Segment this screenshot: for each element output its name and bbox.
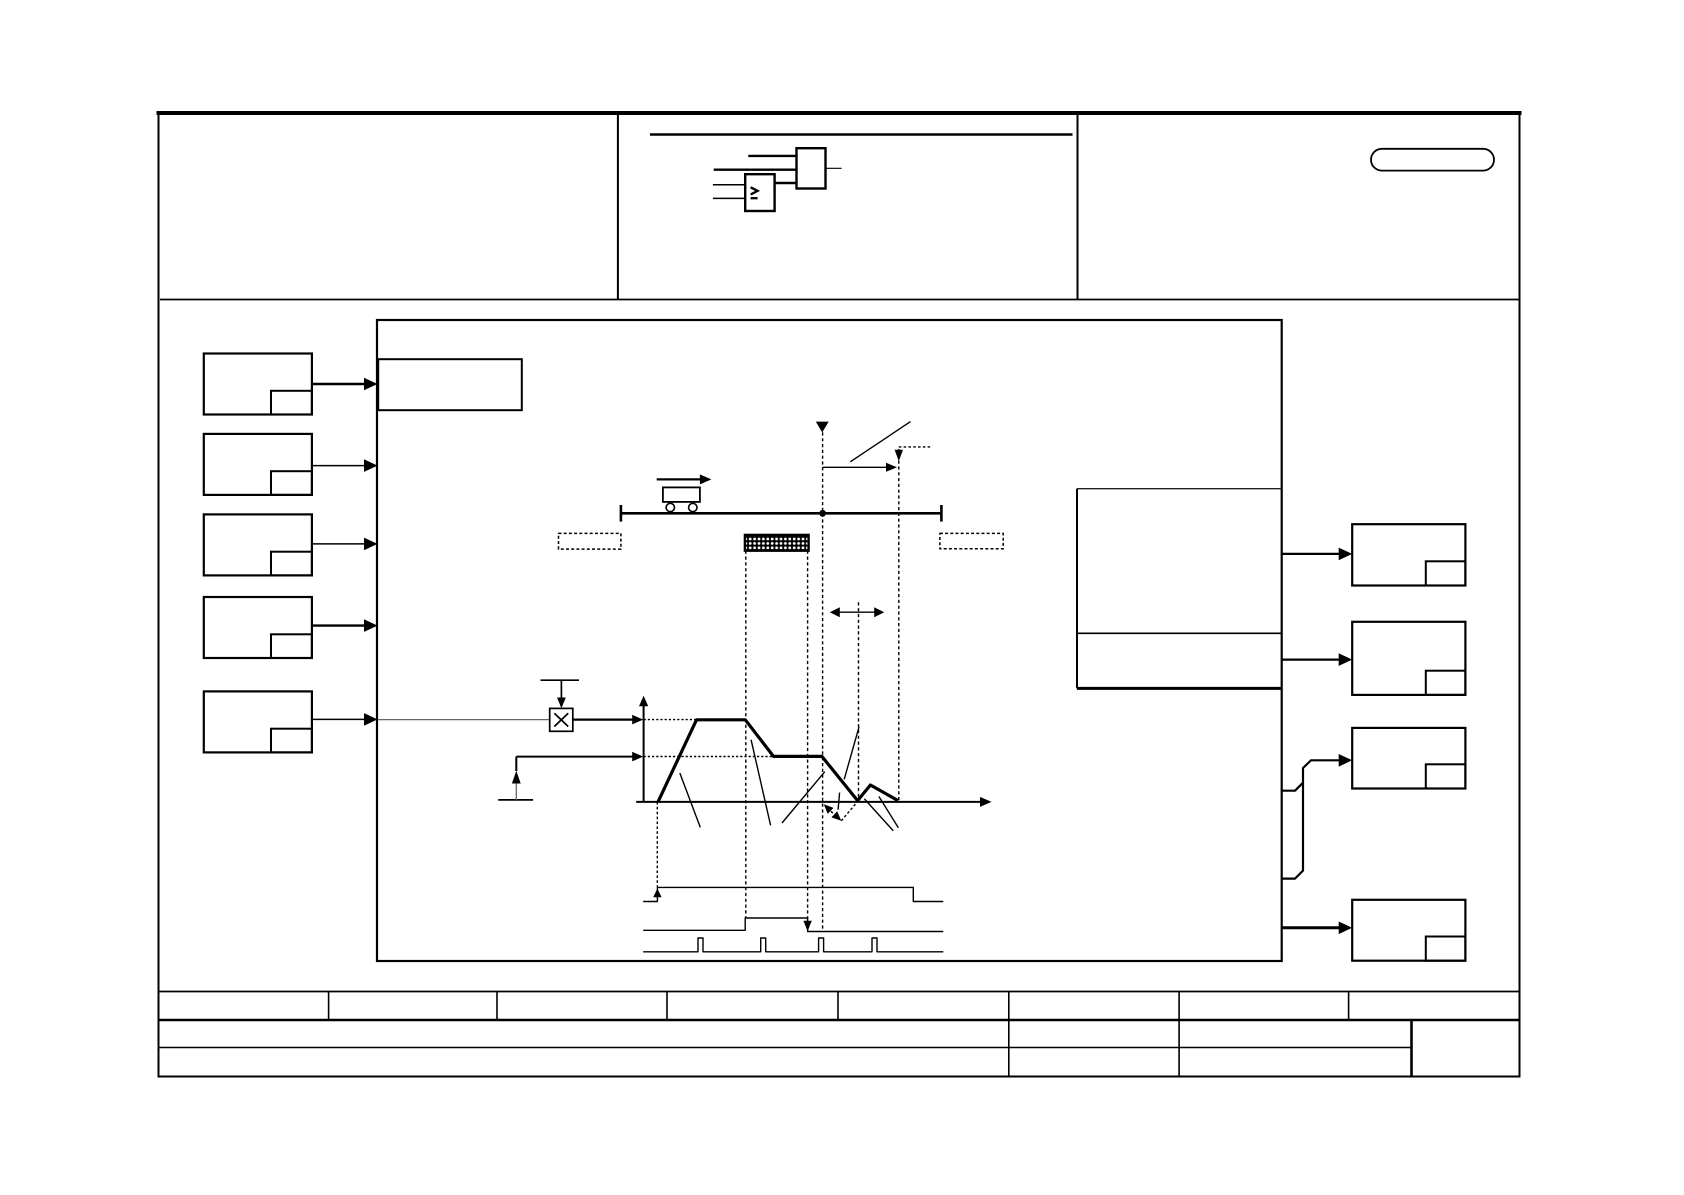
frame top bold edge [157,111,1522,115]
input box L5 [204,691,312,752]
guide dashed x=745.8 [745,551,747,918]
output box R2 sub-box [1426,671,1466,695]
timing signal 3 pulse train [643,938,943,952]
wire input 1 to U2 [748,155,796,157]
slash mark [850,422,910,462]
cart body [663,487,700,502]
guide dotted x=657.3 [656,802,658,887]
wire arrow from L5 into panel [312,718,365,720]
input box L5 sub-box [271,729,312,753]
big block divider [1077,632,1282,634]
header divider left [617,113,619,300]
table row1 column line x=838 [837,992,839,1021]
dashed zone box left [559,533,621,549]
wire arrow from L4 into panel [312,624,365,626]
pill badge [1371,149,1494,171]
wire U1 output to U2 [775,182,797,184]
wire arrow to R2 [1282,658,1339,660]
cart motion arrow [657,478,701,480]
big block bottom bold [1077,687,1282,690]
wire arrow from L1 into panel [312,383,365,386]
main panel [377,320,1282,961]
callout line 4 [844,727,859,779]
cart wheel 2 [689,503,697,511]
dashed annotation arrow pair [828,808,839,819]
table row1 column line x=328.6 [328,992,330,1021]
dotted stub right of offset arrow [899,446,932,448]
input box L1 [204,354,312,415]
callout line 2 [751,740,771,826]
input box L2 sub-box [271,471,312,495]
outer drawing frame [159,112,1520,1077]
output box R1 [1352,524,1465,585]
table row1 column line x=667 [666,992,668,1021]
wire input 1 to U1 [713,184,745,186]
bar right tick [940,505,943,522]
callout line 7 [879,797,899,828]
small down arrowhead on guide x898 [895,450,903,462]
table row1 bottom bold rule [159,1019,1520,1022]
guide dashed x=807.6 [807,551,809,925]
output box R3 sub-box [1426,764,1466,788]
OR gate U1 [745,174,774,211]
bar left tick [620,505,623,522]
plot y-axis [643,706,645,802]
table top rule [159,991,1520,993]
wire multiplier output to v-axis [573,718,633,720]
merged connector to R3 [1282,783,1303,791]
input box L4 [204,597,312,658]
cart wheel 1 [666,503,674,511]
table row1 column line x=497 [496,992,498,1021]
table row2/3 divider [159,1047,1412,1049]
output box R4 sub-box [1426,937,1466,961]
table lower column line x=1179.1 [1178,1020,1180,1076]
input box L4 sub-box [271,634,312,658]
dashed zone box right [940,533,1003,548]
AND block U2 [797,148,826,188]
panel label box [378,359,522,410]
reference cam triangle [816,422,829,433]
output box R4 [1352,900,1465,961]
hatched zone box [745,535,809,551]
header bottom rule [160,299,1519,301]
timing signal 2 [643,918,943,932]
callout line 3 [782,772,825,823]
dotted level v-max [644,719,746,721]
wire step source to v-axis [516,756,633,758]
callout line 6 [864,799,893,831]
output box R3 [1352,728,1465,789]
velocity profile curve [658,720,898,802]
wire arrow from L3 into panel [312,543,365,545]
step source symbol [498,799,533,801]
node dot on bar [819,510,826,517]
wire arrow from L2 into panel [312,465,365,467]
guide dashed x=822.6 [822,432,824,930]
header divider right [1077,113,1079,300]
input box L2 [204,434,312,495]
output box R2 [1352,622,1465,695]
output box R1 sub-box [1426,561,1466,585]
down arrowhead at signal2 fall [803,921,811,932]
table row1 column line x=1179.1 [1178,992,1180,1021]
wire input 2 to U2 [714,168,797,170]
callout line 5 [838,793,840,810]
dotted level v-ref [644,756,822,758]
wire arrow to R1 [1282,553,1339,555]
timing signal 1 [643,887,943,901]
plot x-axis [636,801,981,803]
position axis bar [621,512,942,515]
wire U2 output [826,167,842,169]
input box L3 sub-box [271,552,312,576]
table lower column line x=1008.8 [1008,1020,1010,1076]
input box L1 sub-box [271,391,312,415]
table row1 column line x=1348.6 [1348,992,1350,1021]
guide dashed x=898.8 [898,449,900,801]
title underline [650,133,1073,136]
multiplier X-box [550,708,573,731]
input box L3 [204,514,312,575]
wire input 2 to U1 [713,197,745,199]
table right cell bold divider [1410,1020,1413,1076]
T source symbol above multiplier [541,679,580,681]
table row1 column line x=1008.8 [1008,992,1010,1021]
tolerance double arrow [831,611,882,613]
big output block [1077,488,1282,490]
offset arrow [823,466,887,468]
up arrowhead on signal 1 rise [653,889,661,898]
wire arrow to R4 [1282,926,1339,929]
guide dashed x=858.5 [858,602,860,800]
wire gray line from L5 arrow to multiplier [378,719,550,721]
callout line 1 [680,773,701,827]
